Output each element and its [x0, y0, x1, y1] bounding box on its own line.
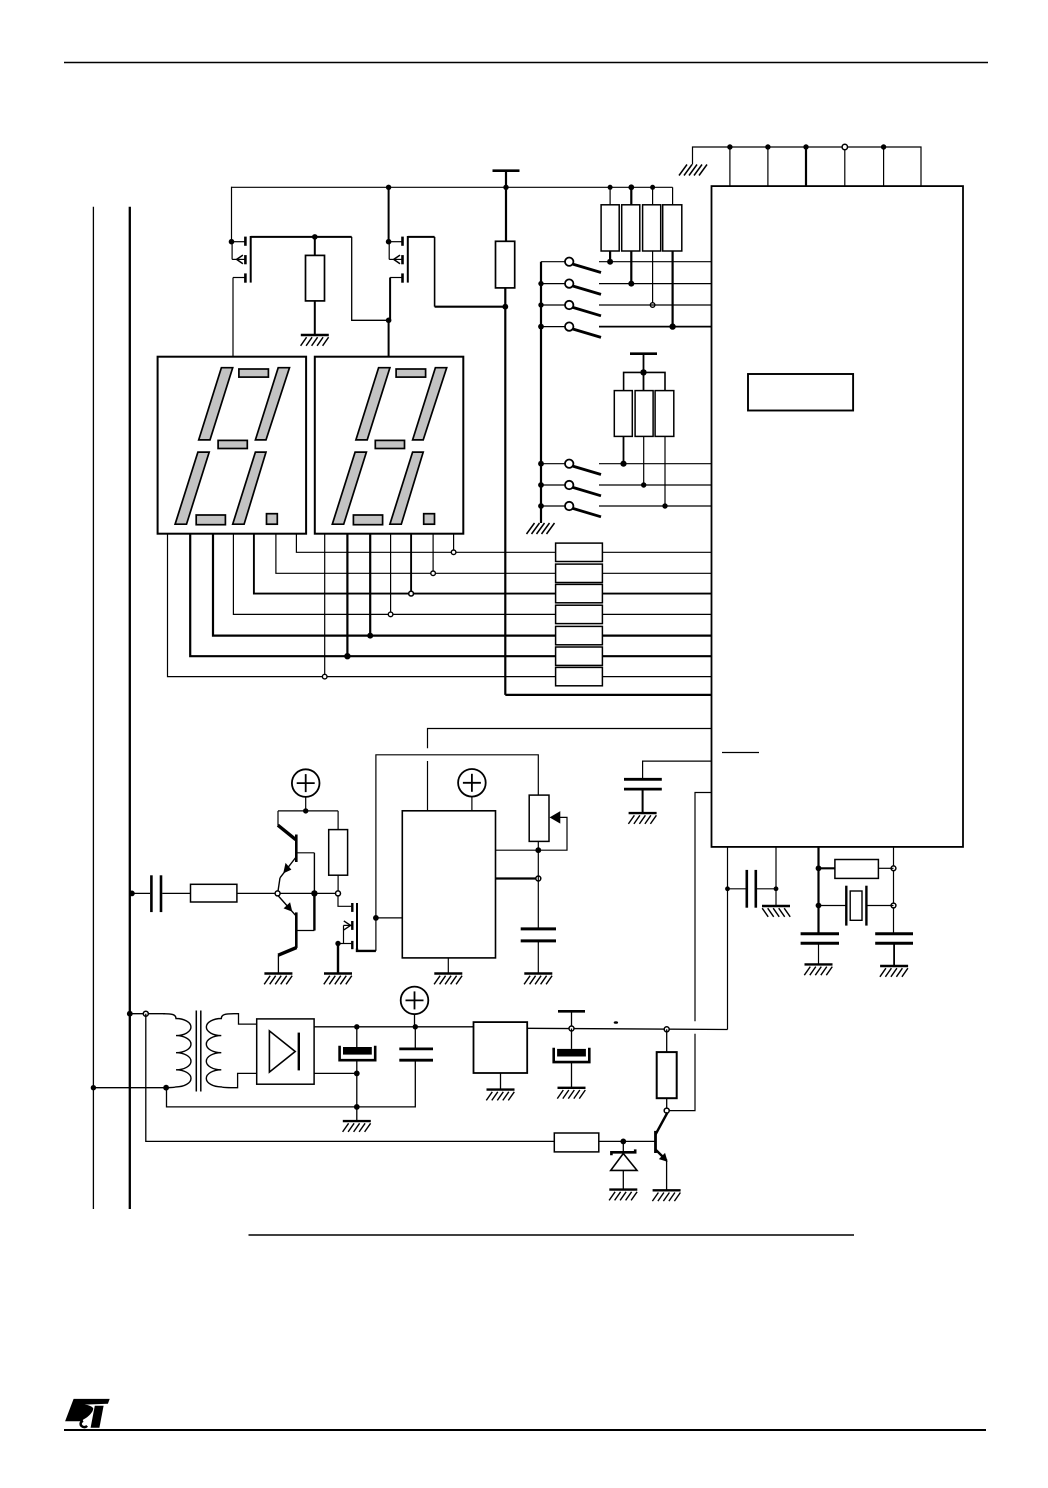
- segment B: [255, 368, 289, 440]
- resistor R2 (display common): [496, 241, 515, 695]
- node row7/DIS2: [322, 674, 327, 679]
- transistor Q6 (NPN zero-cross): [656, 1113, 668, 1191]
- wire return line: [167, 1060, 416, 1107]
- wire row1 to MCU: [602, 551, 711, 553]
- Q2 channel segments: [401, 237, 404, 246]
- display DIS1 (7-segment): [158, 357, 307, 534]
- segment A: [396, 369, 426, 377]
- resistor RN6: [556, 647, 603, 665]
- node Q2 drain: [386, 239, 392, 245]
- top rule: [64, 62, 988, 64]
- resistor RP1: [601, 185, 619, 265]
- segment E: [175, 452, 209, 524]
- transistor Q3 (small MOSFET): [335, 896, 376, 974]
- resistor RN3: [556, 584, 603, 602]
- node osc1 b: [816, 903, 822, 909]
- resistor RN7: [556, 667, 603, 685]
- wire U2 ground stub: [447, 958, 449, 974]
- op-amp block U2: [402, 811, 495, 958]
- wire DIS2 pin4: [390, 534, 392, 615]
- pin marker dash inside U1: [722, 752, 759, 754]
- Q1 gate bar: [250, 236, 252, 283]
- wire input node: [237, 892, 338, 894]
- wire row2 to MCU: [602, 572, 711, 574]
- wire supply stem: [505, 171, 507, 242]
- wire U1 osc pin 1: [817, 847, 819, 934]
- transistor Q2 (P-MOS digit driver 2): [386, 187, 505, 356]
- transformer T1 core: [195, 1011, 197, 1092]
- segment DP: [267, 514, 278, 525]
- wire L2 to transformer primary: [130, 1013, 165, 1015]
- segment B: [413, 368, 447, 440]
- supply T symbol: [493, 170, 520, 172]
- wire row7 to MCU: [602, 676, 711, 678]
- wire U3 ground stub: [500, 1073, 502, 1090]
- wire DIS1 pin3 / seg row 5: [213, 534, 556, 636]
- ground C10: [880, 966, 908, 977]
- potentiometer P1: [529, 795, 567, 853]
- switch SW3: [538, 301, 711, 316]
- wire U2 out 2: [496, 877, 538, 879]
- resistor RP4: [663, 187, 682, 329]
- node Q3 gate / U2 input: [373, 915, 379, 921]
- resistor R5 (input): [191, 884, 237, 902]
- mains line L2: [129, 207, 131, 1209]
- ground C9: [804, 964, 832, 975]
- +5V T symbol: [558, 1010, 585, 1012]
- ground C6: [524, 974, 552, 985]
- wire DIS1 pin6 / seg row 2: [276, 534, 556, 574]
- node input/base: [275, 891, 280, 896]
- ground Q3 source: [324, 974, 352, 985]
- node Q2 source / Q1 gate: [386, 318, 392, 324]
- node auxiliary tap: [143, 1011, 148, 1016]
- resistor RP3: [643, 185, 661, 308]
- supply symbol transistor pair: [292, 769, 320, 797]
- bottom rule: [64, 1429, 986, 1431]
- capacitor C3 (5V filter, electrolytic): [554, 1029, 590, 1088]
- node row1/DIS2: [451, 550, 456, 555]
- segment F: [356, 368, 390, 440]
- wire DIS1 pin7 / seg row 1: [296, 534, 555, 553]
- display DIS2 (7-segment): [315, 357, 464, 534]
- Q1 channel segments: [244, 237, 247, 246]
- wire raw supply stem: [414, 1014, 416, 1027]
- wire U1 to IC2 top: [428, 729, 712, 749]
- node row4/DIS2: [388, 612, 393, 617]
- wire pair supply rail: [278, 810, 338, 812]
- wire segment bus to MCU: [505, 694, 711, 696]
- wire secondary bottom to bridge: [231, 1073, 257, 1087]
- wire 5V T stem: [571, 1011, 573, 1028]
- wire R9 to base: [599, 1140, 655, 1142]
- ground R1: [301, 335, 329, 346]
- zener diode DZ1: [611, 1141, 637, 1189]
- wire switch bus: [540, 262, 542, 523]
- wire U1 top pin 1: [729, 147, 731, 186]
- switch SW6: [538, 481, 711, 496]
- segment E: [332, 452, 366, 524]
- node return line: [354, 1104, 360, 1110]
- transformer T1 secondary winding: [206, 1014, 234, 1088]
- node primary bottom: [163, 1085, 169, 1091]
- node 5V/R8: [664, 1027, 669, 1032]
- capacitor C5 (input): [132, 875, 191, 912]
- node 5V/C3: [569, 1026, 574, 1031]
- wire U1 top pin 2: [767, 147, 769, 186]
- mains line L1: [92, 207, 94, 1209]
- wire DIS2 pin3: [369, 534, 371, 636]
- node row3/DIS2: [409, 591, 414, 596]
- wire rail to Q1: [231, 187, 233, 242]
- node rail/Q2 gate: [386, 185, 391, 190]
- wire U1 top ground bus: [693, 147, 922, 186]
- wire DIS2 pin5: [410, 534, 412, 594]
- wire DIS2 pin1: [324, 534, 326, 677]
- segment C: [390, 452, 423, 524]
- ground U3: [486, 1090, 514, 1101]
- wire Q3 gate to U2 and top link: [376, 755, 538, 951]
- wire U1 top pin 4: [844, 147, 846, 186]
- ground Q6 emitter: [652, 1190, 680, 1201]
- switch SW5: [538, 460, 711, 475]
- wire U1 top pin 5: [883, 147, 885, 186]
- supply T symbol bank 2: [630, 353, 657, 355]
- ground C3: [557, 1088, 585, 1099]
- wire aux tap to Q6 base resistor: [146, 1014, 555, 1142]
- resistor R7 (osc feedback): [819, 860, 894, 879]
- resistor RP7: [655, 391, 674, 509]
- wire node to U2: [376, 917, 402, 919]
- wire secondary top to bridge: [234, 1014, 257, 1024]
- node bus pin5: [881, 144, 886, 149]
- wire U1 osc pin 2: [893, 847, 895, 934]
- node bus pin3: [803, 144, 808, 149]
- crystal X1: [819, 886, 894, 926]
- segment D: [353, 515, 382, 525]
- ST logo: [65, 1399, 110, 1428]
- wire U1 output pin to Q6 collector: [695, 793, 712, 1022]
- VCC rail wire: [232, 186, 673, 188]
- capacitor C2: [399, 1027, 433, 1060]
- wire Q1 source to display 1: [232, 278, 234, 357]
- node Vss: [774, 886, 779, 891]
- wire U1 Vss pin: [775, 847, 777, 906]
- wire U1 5V pin: [727, 847, 729, 1030]
- node osc1 a: [816, 865, 822, 871]
- wire rail to Q2: [388, 187, 390, 241]
- wire U1 top pin 3: [805, 147, 807, 186]
- node rail/supply: [503, 185, 508, 190]
- wire Q1 drain-bulk: [231, 242, 233, 260]
- bridge rectifier D1: [257, 1019, 314, 1084]
- node raw supply: [413, 1024, 418, 1029]
- resistor R9 (Q6 base): [554, 1133, 599, 1152]
- node row6/DIS2: [344, 653, 350, 659]
- node Q6 collector: [664, 1108, 669, 1113]
- capacitor C1 (reservoir, electrolytic): [340, 1027, 376, 1121]
- segment G: [218, 440, 247, 448]
- capacitor C7 (decoupling): [624, 779, 662, 813]
- node base tie: [311, 890, 317, 896]
- wire U2 out 1: [496, 849, 539, 851]
- segment D: [196, 515, 225, 525]
- node L1 primary return: [91, 1085, 96, 1090]
- node bus pin1: [727, 144, 732, 149]
- node bus pin4: [842, 144, 847, 149]
- wire bridge - output: [314, 1072, 357, 1074]
- switch SW7: [538, 502, 711, 517]
- node osc cap tap: [725, 886, 730, 891]
- node C1 bottom: [354, 1071, 360, 1077]
- separator line below schematic: [249, 1234, 855, 1236]
- segment DP: [424, 514, 435, 525]
- wire bank2 supply stem: [643, 354, 645, 391]
- wire U2 supply stem: [471, 797, 473, 811]
- label box inside U1: [748, 374, 853, 411]
- wire DIS2 pin7: [453, 534, 455, 553]
- node bus pin2: [765, 144, 770, 149]
- resistor R1 (gate pulldown): [306, 234, 325, 335]
- node row5/DIS2: [367, 633, 373, 639]
- wire DIS1 pin5 / seg row 3: [254, 534, 556, 594]
- node osc2 a: [891, 866, 896, 871]
- wire Q2 source to display 2: [389, 278, 391, 357]
- resistor RN2: [556, 564, 603, 582]
- segment C: [233, 452, 266, 524]
- wire DIS1 pin1 / seg row 7: [168, 534, 556, 677]
- transistor Q1 (P-MOS digit driver 1): [229, 187, 389, 357]
- transistor Q4 (upper of pair): [278, 811, 315, 894]
- ground U2: [434, 974, 462, 985]
- node R2 bottom: [502, 304, 508, 310]
- segment A: [239, 369, 269, 377]
- wire U1 decoupling pin: [643, 761, 712, 779]
- node C1 top: [354, 1024, 359, 1029]
- Q2 gate bar: [407, 236, 409, 283]
- switch SW2: [538, 279, 711, 294]
- node zener tap: [620, 1139, 626, 1145]
- wire pair supply stem: [305, 797, 307, 811]
- ground U1 top bus: [679, 165, 707, 176]
- ground switch bus: [527, 523, 555, 534]
- resistor RP6: [635, 391, 653, 488]
- segment G: [375, 440, 404, 448]
- node L2 sense tap: [129, 891, 135, 897]
- wire Q2 gate lead: [408, 236, 435, 238]
- resistor RN1: [556, 543, 603, 561]
- wire Q2 drain-bulk: [388, 242, 390, 260]
- ground supply return: [343, 1121, 371, 1132]
- resistor RP5: [614, 391, 632, 467]
- wire row5 to MCU: [602, 634, 711, 636]
- transformer T1 primary winding: [163, 1014, 191, 1088]
- wire row6 to MCU: [602, 655, 711, 657]
- node L2 transformer tap: [127, 1011, 133, 1017]
- resistor RP2: [622, 184, 640, 286]
- resistor RN4: [556, 605, 603, 623]
- node R6 bottom: [336, 891, 341, 896]
- wire DIS2 pin6: [432, 534, 434, 574]
- ground Q5 emitter: [264, 974, 292, 985]
- wire DIS1 pin4 / seg row 4: [233, 534, 555, 615]
- ground Vss: [762, 906, 790, 917]
- resistor RN5: [556, 626, 603, 644]
- wire DIS1 pin2 / seg row 6: [190, 534, 555, 657]
- node row2/DIS2: [431, 571, 436, 576]
- wire row3 to MCU: [602, 593, 711, 595]
- resistor R8 (collector pull-up): [657, 1029, 677, 1110]
- switch SW1: [541, 258, 712, 273]
- wire row4 to MCU: [602, 613, 711, 615]
- node pair supply: [303, 808, 308, 813]
- node osc2 b: [891, 903, 896, 908]
- wire bridge + output: [314, 1026, 473, 1028]
- supply symbol U2: [458, 769, 486, 797]
- wire L1 to primary bottom: [93, 1087, 166, 1089]
- supply symbol raw: [401, 987, 429, 1015]
- capacitor C8: [728, 870, 777, 908]
- resistor R6 (pair load): [329, 811, 348, 891]
- capacitor C6 (filter): [521, 929, 556, 974]
- wire pot node down: [537, 850, 539, 929]
- wire Q1 gate lead: [251, 236, 352, 238]
- wire DIS2 pin2: [346, 534, 348, 657]
- switch SW4: [538, 322, 711, 337]
- ground C7: [628, 813, 656, 824]
- segment F: [199, 368, 233, 440]
- node Q1 drain: [229, 239, 235, 245]
- ground DZ1: [609, 1190, 637, 1201]
- wire 5V output: [527, 1028, 727, 1029]
- capacitor C10 (osc2): [875, 934, 913, 966]
- capacitor C9 (osc1): [801, 934, 839, 965]
- wire bank2 mini rail: [624, 372, 665, 390]
- node bank2 supply: [640, 369, 646, 375]
- node U2 out 2: [536, 876, 541, 881]
- speck artifact: [614, 1021, 618, 1024]
- node R1 top: [312, 234, 318, 240]
- transistor Q5 (lower of pair): [278, 893, 314, 973]
- voltage regulator U3: [474, 1022, 528, 1073]
